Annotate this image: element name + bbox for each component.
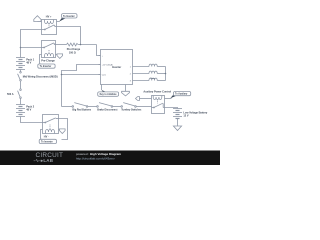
node junction pre-charge resistor / HV+ out <box>80 44 82 46</box>
wire motor neutral bus <box>165 67 167 81</box>
fuse switch 500 A <box>18 89 22 105</box>
wire HV+ switch out to pre-charge node <box>57 27 81 45</box>
switch Big Red Buttons <box>72 103 97 108</box>
flag To Auxilary (aux coil right) <box>165 92 191 99</box>
svg-text:-∿-▸LAB: -∿-▸LAB <box>34 158 54 163</box>
svg-text:48 V: 48 V <box>26 62 31 65</box>
wire HV- switch out wrap <box>59 119 68 140</box>
svg-text:2: 2 <box>130 73 131 75</box>
wire pre-charge left <box>21 47 42 49</box>
svg-text:HV +: HV + <box>46 15 52 18</box>
svg-text:To Auxilary: To Auxilary <box>175 93 188 96</box>
svg-text:100 Ω: 100 Ω <box>69 51 76 54</box>
svg-text:Turnkey Switches: Turnkey Switches <box>121 109 142 112</box>
svg-text:To Inverter: To Inverter <box>41 141 53 144</box>
pin labels inverter right <box>130 66 131 82</box>
svg-text:+12 V (3mA): +12 V (3mA) <box>102 63 113 66</box>
flag To Inverter (coil right of HV+) <box>57 14 78 22</box>
resistor Pre-Charge 100 Ohm <box>56 43 97 46</box>
label Low Voltage Battery 12 V <box>183 111 207 117</box>
flag node pentagon left (aux coil left) <box>136 97 152 101</box>
pin labels inverter left <box>102 55 113 76</box>
wire inverter pin2 step <box>62 65 101 107</box>
svg-text:1: 1 <box>130 66 131 68</box>
relay Pre-Charge <box>42 41 56 58</box>
node junction control vertical <box>61 74 63 76</box>
label Auxilary Power Control <box>143 91 171 94</box>
svg-text:To Inverter: To Inverter <box>40 65 52 68</box>
switch Mid Wiring Disconnect (MSD) <box>18 72 22 89</box>
label Big Red Buttons <box>72 109 91 112</box>
relay Auxilary Power Control <box>152 96 165 114</box>
label Pre-Charge 100 Ohm <box>67 48 81 54</box>
inductor motor phase 1 <box>133 64 166 66</box>
flag node pentagon down (HV- coil right) <box>59 129 66 134</box>
label Pack 2 48 V <box>26 105 35 111</box>
label HV - <box>44 136 49 139</box>
svg-text:500 A: 500 A <box>7 93 14 96</box>
svg-text:3: 3 <box>130 80 131 82</box>
svg-text:+: + <box>102 55 104 57</box>
svg-text:http://circuitlab.com/c643zmv: http://circuitlab.com/c643zmv <box>76 157 115 161</box>
node junction pre-charge tap <box>20 47 22 49</box>
flag To Inverter (below HV-) <box>39 139 56 144</box>
relay HV - (negative contactor) <box>43 115 59 134</box>
footer bar <box>0 151 220 166</box>
ground <box>173 126 181 131</box>
wire pack2 bottom rail to HV- relay <box>21 117 43 123</box>
flag node pentagon down (pre-charge coil right) <box>56 54 63 59</box>
svg-text:Pre-Charge: Pre-Charge <box>41 60 55 63</box>
svg-text:To Inverter: To Inverter <box>63 15 75 18</box>
flag node HV+ coil left (pentagon up) <box>34 16 42 22</box>
label Mid Wiring Disconnect (MSD) <box>23 76 58 79</box>
flag To Inverter (below pre-charge) <box>38 63 55 68</box>
svg-text:Com: Com <box>102 74 106 76</box>
label Inverter <box>112 66 121 69</box>
battery Low Voltage Battery 12 V <box>173 109 182 127</box>
svg-text:Inverter: Inverter <box>112 66 121 69</box>
battery Pack 2 48 V <box>16 105 25 117</box>
block Inverter (main box) <box>99 50 133 92</box>
svg-text:Brake Disconnect: Brake Disconnect <box>97 109 117 112</box>
wire HV- coil left down <box>41 130 43 139</box>
wire to inverter pin1 <box>97 45 101 56</box>
svg-text:Motor: Motor <box>150 77 155 80</box>
flag callout below inverter (bottom-left pin) <box>98 90 119 96</box>
wire aux switch to LV battery <box>165 108 178 109</box>
node junction motor neutral <box>165 73 167 75</box>
label Brake Disconnect <box>97 109 117 112</box>
inductor motor phase 2 <box>133 71 166 73</box>
svg-text:Big Red Buttons: Big Red Buttons <box>72 109 91 112</box>
label HV + <box>46 15 52 18</box>
label Motor <box>150 77 155 80</box>
inductor motor phase 3 <box>133 78 166 80</box>
svg-text:Key to Antidote: Key to Antidote <box>100 93 118 96</box>
svg-text:12 V: 12 V <box>183 115 188 118</box>
wire battery+ rail to HV+ switch <box>21 30 42 58</box>
svg-text:Mid Wiring Disconnect (MSD): Mid Wiring Disconnect (MSD) <box>23 76 58 79</box>
wire control row <box>62 106 73 108</box>
label 500 A <box>7 93 14 96</box>
flag node pentagon down (inverter bottom) <box>122 91 130 96</box>
relay HV + (main contactor) <box>42 20 57 35</box>
svg-text:48 V: 48 V <box>26 109 31 112</box>
label Turnkey Switches <box>121 109 142 112</box>
svg-text:powered : High Voltage Diagram: powered : High Voltage Diagram <box>76 152 121 156</box>
switch Brake Disconnect <box>97 103 121 108</box>
svg-text:HV -: HV - <box>44 136 49 139</box>
label Pre-Charge (relay name) <box>41 60 55 63</box>
svg-text:Auxilary Power Control: Auxilary Power Control <box>143 91 171 94</box>
wire coil left down <box>40 55 42 64</box>
battery Pack 1 48 V <box>16 58 25 72</box>
switch Turnkey Switches <box>121 103 152 108</box>
wire inverter pin3 <box>62 74 101 76</box>
label Pack 1 48 V <box>26 58 35 64</box>
